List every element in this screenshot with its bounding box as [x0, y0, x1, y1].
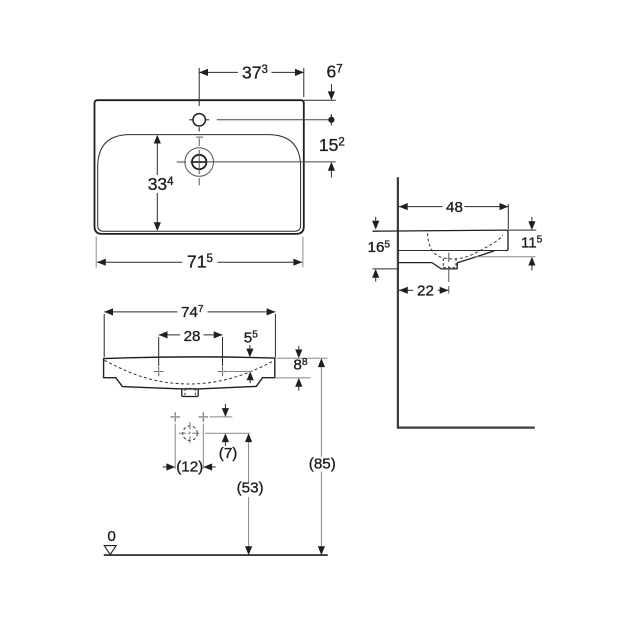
trap circle	[183, 426, 198, 441]
svg-text:55: 55	[244, 329, 258, 346]
svg-text:747: 747	[181, 304, 204, 321]
side dashed bowl contour	[428, 233, 503, 259]
drain hole D1	[192, 155, 207, 169]
svg-text:152: 152	[319, 135, 345, 155]
drain boss hidden edges dashed	[185, 388, 195, 396]
plan view inner basin outline	[98, 135, 301, 232]
dimension 48	[399, 204, 508, 229]
dimension 11⁵	[508, 229, 537, 231]
front view basin body outline	[104, 357, 275, 389]
front view drain boss	[182, 389, 198, 397]
5⁵ lower arrow to hole line	[249, 380, 251, 383]
dimension (53)	[248, 442, 250, 483]
dimension 74⁷	[104, 312, 275, 357]
drain horizontal centerline to 15²	[177, 161, 336, 163]
side trap internals dashed	[443, 259, 456, 269]
svg-text:165: 165	[368, 239, 391, 256]
svg-text:67: 67	[327, 62, 343, 82]
svg-text:88: 88	[293, 357, 307, 374]
wall bolt left	[171, 412, 180, 421]
wall corner line	[398, 177, 535, 427]
svg-text:22: 22	[417, 283, 434, 300]
wall bolt right	[199, 412, 208, 421]
svg-text:715: 715	[187, 251, 213, 271]
dimension 22	[399, 289, 449, 291]
fixing hole left	[154, 367, 163, 376]
dimension 71⁵	[96, 237, 303, 268]
datum dot	[330, 114, 332, 125]
fixing hole right	[218, 367, 227, 376]
dimension 15²	[328, 162, 335, 171]
dimension (7)	[210, 416, 233, 418]
svg-text:(7): (7)	[219, 445, 238, 462]
svg-text:(53): (53)	[237, 480, 264, 497]
dimension 33⁴	[156, 143, 158, 222]
dimension 6⁷	[304, 99, 336, 101]
dimension (12)	[163, 466, 216, 468]
svg-text:48: 48	[446, 199, 463, 216]
front view interior dashed contour	[104, 360, 273, 384]
svg-text:115: 115	[521, 234, 543, 251]
dimension 5⁵	[249, 345, 251, 349]
svg-text:0: 0	[107, 528, 115, 545]
side trap cover	[432, 262, 457, 269]
side rim band bottom line	[398, 250, 507, 252]
svg-text:334: 334	[148, 174, 174, 194]
faucet centerline to datum dot	[217, 119, 332, 121]
side profile outline	[373, 230, 509, 263]
bolt extension lines	[174, 424, 176, 470]
drain outer circle	[185, 148, 214, 177]
dimension 37³	[199, 68, 304, 106]
drain vertical centerline	[198, 138, 200, 185]
dimension 8⁸	[277, 357, 328, 359]
plan view outer rim	[95, 100, 304, 234]
dimension 16⁵	[375, 217, 377, 221]
svg-text:(12): (12)	[176, 458, 203, 475]
dimension (85)	[320, 367, 322, 457]
faucet hole F1	[189, 114, 209, 132]
svg-text:(85): (85)	[309, 455, 336, 472]
svg-text:373: 373	[242, 62, 268, 82]
ground line	[104, 554, 328, 556]
dimension 28	[159, 335, 223, 366]
overflow tick mark	[196, 136, 203, 138]
trap centerline	[448, 253, 450, 294]
svg-text:28: 28	[184, 328, 201, 345]
fixing hole reference line	[228, 371, 252, 373]
